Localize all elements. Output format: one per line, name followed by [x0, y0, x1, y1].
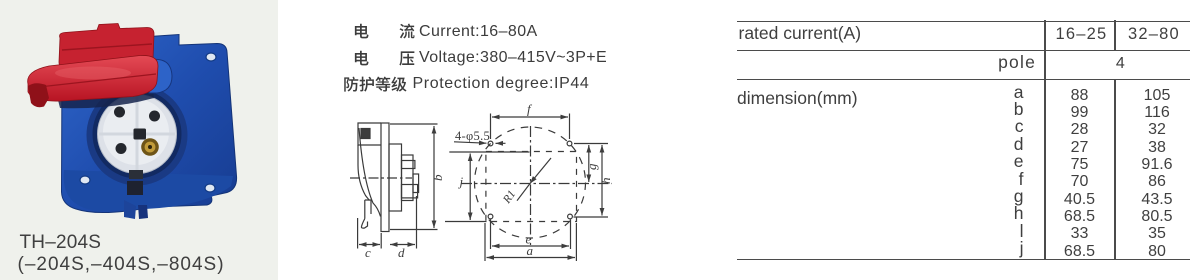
center key square — [134, 129, 147, 140]
spec line 3: protection degree — [343, 76, 359, 92]
spec line 1: current — [353, 23, 369, 39]
table top border — [737, 21, 1191, 23]
dimension label — [737, 89, 858, 107]
spec line 2: voltage — [353, 50, 369, 66]
radius line R — [530, 158, 551, 184]
product photo: industrial socket — [0, 0, 280, 280]
dimension f — [491, 114, 570, 140]
white socket face — [98, 95, 177, 174]
dimension b — [390, 124, 438, 230]
dimension values 32-80 — [1114, 87, 1200, 260]
blue flange plate — [62, 35, 237, 213]
dimension h — [574, 216, 609, 218]
red lid back flap — [59, 24, 154, 69]
svg-text:4-φ5.5: 4-φ5.5 — [455, 129, 490, 143]
bottom bulge of body — [64, 170, 233, 211]
front view: centerlines — [461, 183, 612, 185]
svg-text:b: b — [430, 174, 445, 181]
side view: back box nub — [413, 174, 419, 193]
dimension c — [358, 218, 382, 249]
svg-text:h: h — [598, 178, 613, 185]
svg-text:a: a — [527, 243, 534, 258]
dimension g — [574, 143, 608, 145]
corner screw holes — [206, 53, 216, 61]
dimension values 16-25 — [1044, 87, 1115, 260]
bottom keyway notch — [129, 170, 143, 179]
dimension a — [485, 223, 576, 261]
front view: mounting holes — [488, 141, 493, 146]
side view: back box step 1 — [389, 144, 402, 211]
side view: flange plate — [381, 123, 389, 232]
side view: top hinge housing — [358, 123, 381, 145]
svg-text:c: c — [365, 245, 371, 260]
technical drawing — [330, 95, 650, 280]
side view: centerline — [350, 177, 412, 179]
left photo panel background — [0, 0, 278, 280]
dimension letters — [944, 84, 1024, 257]
table bottom border — [737, 259, 1190, 261]
svg-text:j: j — [458, 174, 464, 189]
front view: dashed body outline — [475, 127, 586, 238]
side view: bottom feet detail — [361, 200, 371, 228]
bottom feet — [124, 200, 136, 219]
lid hinge knob — [149, 59, 172, 93]
table vertical line 1 — [1044, 20, 1046, 260]
header: rated current — [739, 24, 862, 42]
dimension j — [445, 152, 530, 222]
front view: inner dashed square — [486, 152, 577, 222]
dark recess ring — [87, 85, 188, 186]
svg-text:f: f — [527, 102, 533, 117]
red lid left lip — [28, 83, 49, 107]
table vertical line 2 lower — [1114, 79, 1116, 260]
pole row — [936, 53, 1036, 71]
svg-text:d: d — [398, 245, 405, 260]
side view: back box step 2 — [402, 155, 414, 201]
shadow under lid — [58, 84, 154, 108]
svg-text:R1: R1 — [501, 188, 519, 206]
table line under row 1 — [737, 50, 1190, 52]
red lid dome — [28, 55, 158, 101]
table vertical line 2 upper — [1114, 20, 1116, 51]
dimension e — [491, 220, 571, 250]
side view: sloped face body — [358, 145, 370, 201]
brass earth contact — [141, 138, 159, 156]
face partitions — [99, 96, 175, 171]
contact holes — [114, 107, 125, 118]
table line under pole row — [737, 79, 1190, 81]
side view: face dome arc — [359, 128, 381, 217]
model name — [20, 233, 102, 252]
dimension d — [416, 196, 418, 249]
svg-text:g: g — [584, 163, 599, 170]
